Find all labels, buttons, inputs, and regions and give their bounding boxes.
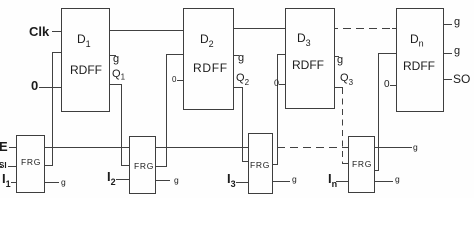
label RDFF (D1) [70,64,102,76]
label E [0,140,8,153]
FRG1 box [16,135,45,193]
wire FRG1 g output [44,182,59,183]
wire Q2 vertical [242,87,243,162]
wire E to FRG1 [9,147,16,148]
label SO [453,73,470,85]
wire chain D3 to Dn (dashed) [335,28,397,29]
wire Q2 output [233,87,243,88]
wire FRG2 g output [155,180,170,181]
wire vertical D1 to FRG1 [52,52,53,166]
wire Q3 vertical (dashed) [342,88,343,164]
pin tick SO Dn [444,79,452,80]
label FRG (FRG1) [21,158,41,167]
wire chain D1 to D2 [109,30,184,31]
label g (D2) [238,53,244,64]
label In [328,172,337,189]
wire E row FRG2 to FRG3 [155,147,248,148]
wire I1 to FRG1 [11,182,16,183]
flip-flop D3 box [285,8,335,109]
FRG4 box [348,136,375,193]
label g (FRG3 output) [292,175,297,184]
label g (FRG1 output) [61,178,66,187]
FRG2 box [129,136,156,194]
wire vertical Dn to FRG4 [378,53,379,171]
wire FRG1 right pin [44,165,53,166]
label RDFF (Dn) [403,60,435,72]
wire FRG4 right pin [374,170,379,171]
wire FRG2 right pin [155,166,167,167]
label 0 (Dn input) [384,80,390,90]
label Q2 [236,73,249,87]
label 0 (D1 input) [31,79,38,92]
label g (FRG4 output) [395,175,400,184]
wire 0 input Dn [390,85,397,86]
label g (D1) [113,54,119,65]
wire FRG4 g output [374,181,393,182]
wire D3 left pin stub [277,54,286,55]
label FRG (FRG2) [134,162,154,171]
label g (FRG2 output) [174,176,179,185]
wire In to FRG4 [336,181,349,182]
wire Q1 into FRG2 [121,165,130,166]
pin tick g1 Dn [444,24,452,25]
wire Q1 output [109,84,122,85]
label I2 [107,170,116,187]
label RDFF (D3) [292,59,324,71]
wire Dn left pin stub [378,53,397,54]
wire Q3 into FRG4 (dashed) [342,163,349,164]
flip-flop D1 box [61,8,110,112]
pin tick g D2 [233,55,239,56]
label Q1 [112,69,125,82]
label D1 [77,33,91,49]
wire E row FRG4 to g [374,147,412,148]
wire D1 left pin stub [52,52,62,53]
label I1 [2,172,11,189]
wire SI to FRG1 [8,166,16,167]
pin tick g2 Dn [444,53,452,54]
flip-flop Dn box [396,8,444,112]
wire SI stub at left edge [0,166,2,167]
wire Q2 into FRG3 [242,161,249,162]
label RDFF (D2) [193,62,228,74]
flip-flop D2 box [183,8,234,110]
wire Clk to D1 [52,31,62,32]
wire Q1 vertical [121,84,122,166]
wire 0 input D3 [279,84,286,85]
wire 0 input D1 [39,87,62,88]
label Q3 [340,73,353,87]
label I3 [227,172,236,189]
wire E row FRG1 to FRG2 [44,147,130,148]
wire E row FRG3 to FRG4 (dashed) [277,147,349,148]
wire I3 to FRG3 [236,182,248,183]
wire FRG3 g output [271,181,290,182]
label g (E row end) [413,143,418,152]
FRG3 box [248,133,273,194]
wire FRG3 right pin [271,164,278,165]
wire Q3 output [335,87,343,88]
label SI [0,162,7,170]
label D2 [200,33,214,49]
wire vertical D2 to FRG2 [166,54,167,167]
label g (D3) [337,55,343,66]
label FRG (FRG4) [352,160,372,169]
label 0 (D2 input) [172,76,176,84]
label 0 (D3 input) [274,79,279,88]
wire D2 left pin stub [166,54,184,55]
label g1 (Dn) [454,17,460,28]
wire chain D2 to D3 [233,28,286,29]
label D3 [297,32,311,48]
pin tick g D1 [109,55,116,56]
label Dn [410,33,424,49]
wire vertical D3 to FRG3 [277,54,278,165]
wire I2 to FRG2 [116,179,130,180]
label g2 (Dn) [454,46,460,57]
wire 0 input D2 [177,80,184,81]
label FRG (FRG3) [250,161,270,170]
pin tick g D3 [335,56,339,57]
label Clk [29,25,49,38]
